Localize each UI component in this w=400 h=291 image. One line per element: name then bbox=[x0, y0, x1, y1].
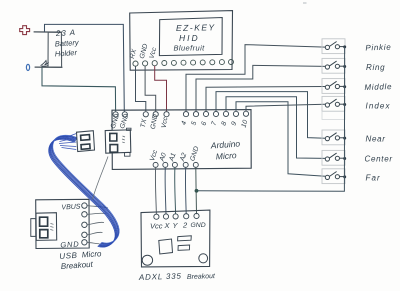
U2 bottom pin labels bbox=[149, 146, 201, 164]
wire pin5 to switch S2 Ring bbox=[196, 65, 325, 111]
svg-text:Vcc: Vcc bbox=[161, 116, 170, 129]
svg-text:Micro: Micro bbox=[82, 249, 103, 259]
svg-text:Middle: Middle bbox=[364, 82, 392, 92]
svg-text:4: 4 bbox=[180, 120, 188, 126]
switch S3 Middle bbox=[322, 79, 346, 94]
switch S7 Far bbox=[322, 169, 346, 184]
switch S5 Near bbox=[322, 130, 346, 145]
svg-text:7: 7 bbox=[210, 121, 218, 127]
junction node ground bbox=[195, 189, 199, 193]
switch S4 Index bbox=[322, 96, 346, 111]
switch S1 Pinkie bbox=[322, 39, 346, 54]
wire U2 A0 to U3 X bbox=[164, 168, 167, 215]
svg-text:Breakout: Breakout bbox=[187, 273, 216, 281]
accelerometer U3 ADXL335 box bbox=[141, 210, 210, 267]
svg-text:Near: Near bbox=[366, 135, 386, 144]
svg-text:GND: GND bbox=[189, 146, 200, 163]
U1 pin row pads bbox=[133, 60, 234, 67]
svg-text:Pinkie: Pinkie bbox=[365, 43, 391, 53]
svg-text:GND: GND bbox=[60, 239, 80, 249]
switch S6 Center bbox=[322, 150, 346, 165]
svg-text:10: 10 bbox=[240, 119, 249, 129]
svg-text:5: 5 bbox=[190, 120, 198, 126]
scan speck top right bbox=[303, 2, 307, 4]
svg-text:6: 6 bbox=[200, 121, 208, 127]
svg-text:USB: USB bbox=[59, 251, 78, 261]
U3 pin labels Vcc X Y Z GND bbox=[150, 221, 206, 231]
svg-text:Center: Center bbox=[365, 155, 393, 164]
wire pin6 to switch S3 Middle bbox=[206, 87, 325, 112]
svg-text:A0: A0 bbox=[158, 152, 168, 163]
J1 usb connector bbox=[31, 213, 57, 241]
svg-text:TX: TX bbox=[140, 118, 148, 128]
svg-text:Far: Far bbox=[366, 174, 381, 183]
battery BT1 plus terminal bbox=[20, 26, 30, 35]
wire U1 Vcc to arduino Vcc bbox=[155, 66, 167, 111]
svg-text:VBUS: VBUS bbox=[61, 203, 81, 211]
switch finger labels bbox=[364, 43, 392, 183]
U3 internal chip bbox=[159, 239, 173, 254]
wire arduino usb port to J1 bbox=[93, 157, 109, 200]
svg-text:RX: RX bbox=[129, 48, 138, 59]
label USB Micro Breakout bbox=[59, 249, 102, 271]
svg-text:Vcc: Vcc bbox=[150, 222, 163, 231]
wire battery minus to arduino GND1 pin bbox=[42, 67, 116, 111]
svg-text:Battery: Battery bbox=[55, 38, 81, 49]
label ADXL335 Breakout bbox=[138, 272, 216, 283]
svg-text:GND: GND bbox=[150, 114, 160, 130]
bluetooth module U1 EZ-Key box bbox=[130, 11, 233, 71]
wire U1 RX to arduino TX bbox=[136, 66, 146, 111]
battery holder BT1 body bbox=[34, 32, 63, 68]
switch S2 Ring bbox=[322, 58, 346, 73]
svg-text:23 A: 23 A bbox=[55, 28, 77, 38]
wire U2 A2 to U3 Z bbox=[184, 168, 187, 215]
label 23A Battery Holder bbox=[55, 28, 81, 59]
U2 bottom pin pads bbox=[153, 162, 198, 167]
U2 top pin labels bbox=[110, 113, 250, 130]
ribbon fan at plug bbox=[59, 134, 76, 150]
wire pin8 to switch S6 Center bbox=[226, 97, 325, 159]
arduino U2 board outline bbox=[112, 110, 251, 170]
svg-text:HID: HID bbox=[179, 33, 200, 43]
svg-text:Vcc: Vcc bbox=[149, 46, 159, 59]
ribbon cable usb blue bbox=[49, 135, 119, 247]
svg-text:EZ-KEY: EZ-KEY bbox=[176, 22, 216, 33]
wire U2 Vcc to U3 Vcc bbox=[154, 168, 157, 215]
svg-text:Micro: Micro bbox=[215, 150, 237, 161]
battery BT1 minus terminal bbox=[26, 64, 29, 70]
U3 pin pads bbox=[154, 213, 199, 219]
U3 mounting holes bbox=[142, 254, 207, 266]
label Arduino Micro bbox=[209, 138, 240, 161]
wire U1 GND to arduino GND bbox=[145, 66, 156, 111]
wire pin7 to switch S5 Near bbox=[216, 92, 325, 139]
U2 top pin pads bbox=[113, 111, 249, 117]
svg-text:A2: A2 bbox=[179, 152, 189, 163]
J1 pin pads bbox=[82, 203, 87, 245]
U1 pin labels RX GND Vcc bbox=[129, 43, 158, 59]
svg-text:9: 9 bbox=[230, 121, 238, 127]
label EZ-KEY HID Bluefruit bbox=[174, 22, 216, 52]
svg-text:Holder: Holder bbox=[55, 48, 78, 59]
svg-text:Ring: Ring bbox=[366, 63, 385, 72]
wire pin9 to switch S7 Far bbox=[236, 102, 325, 177]
wire U2 GND to U3 GND bbox=[195, 168, 198, 215]
svg-text:GND: GND bbox=[191, 222, 206, 229]
battery spring contact bbox=[41, 61, 49, 67]
arduino U2 usb port bbox=[105, 128, 131, 156]
usb breakout J1 box bbox=[36, 199, 89, 248]
svg-text:X: X bbox=[164, 221, 171, 230]
svg-text:Y: Y bbox=[173, 221, 179, 230]
svg-text:2: 2 bbox=[182, 221, 188, 230]
U3 internal parts bbox=[178, 236, 192, 251]
svg-text:Arduino: Arduino bbox=[209, 138, 240, 150]
svg-text:ADXL 335: ADXL 335 bbox=[138, 272, 182, 283]
J1 labels VBUS GND bbox=[60, 203, 81, 249]
wire U2 A1 to U3 Y bbox=[174, 168, 177, 215]
ground bus from switches bbox=[197, 47, 345, 192]
spare switch box between Index and Near bbox=[322, 112, 345, 120]
usb plug P1 bbox=[77, 131, 95, 152]
wire battery plus to arduino GND2 pin bbox=[45, 24, 125, 111]
wire pin10 to switch S4 Index bbox=[246, 104, 325, 111]
svg-text:8: 8 bbox=[220, 121, 228, 127]
svg-text:Bluefruit: Bluefruit bbox=[174, 44, 206, 53]
J1 pad wires to cable bbox=[87, 206, 108, 244]
svg-text:Breakout: Breakout bbox=[61, 260, 94, 271]
wire pin4 to switch S1 Pinkie bbox=[186, 45, 325, 112]
svg-text:Index: Index bbox=[366, 102, 391, 111]
svg-text:A1: A1 bbox=[168, 152, 178, 163]
